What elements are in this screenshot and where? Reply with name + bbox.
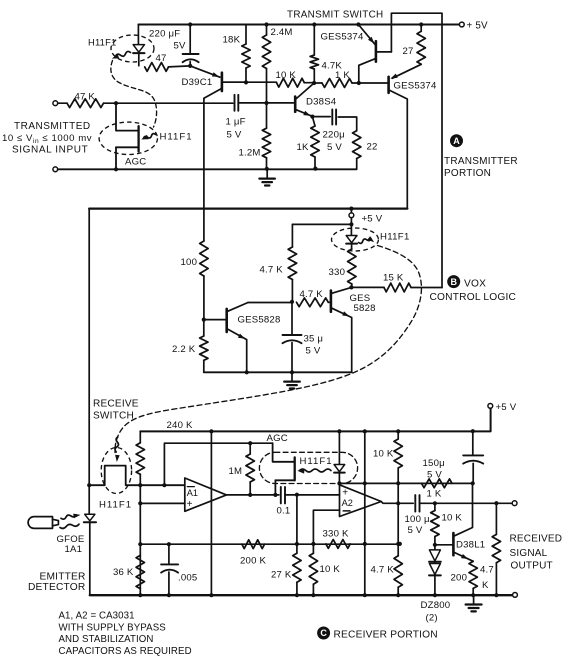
svg-text:H11F1: H11F1 <box>380 232 410 243</box>
svg-text:1 K: 1 K <box>427 488 442 499</box>
badge C receiver portion <box>317 627 330 640</box>
resistor 330 <box>348 249 356 284</box>
svg-text:1M: 1M <box>229 466 243 477</box>
svg-text:15 K: 15 K <box>383 272 404 283</box>
svg-text:OUTPUT: OUTPUT <box>511 560 553 571</box>
svg-text:D38S4: D38S4 <box>306 96 337 107</box>
wire x398 vertical segments <box>397 483 399 503</box>
svg-text:1A1: 1A1 <box>65 544 83 555</box>
wire vertical x364 through A2 <box>364 431 366 595</box>
resistor 100 <box>200 241 208 276</box>
resistor 36 K <box>136 555 144 589</box>
opto H11F1 photoFET AGC (input) <box>116 103 139 130</box>
wire 1K line y483 <box>339 482 472 484</box>
svg-text:10 K: 10 K <box>442 512 463 523</box>
svg-text:RECEIVE: RECEIVE <box>93 398 139 409</box>
svg-text:GES5374: GES5374 <box>394 81 437 92</box>
svg-text:VOX: VOX <box>464 278 486 289</box>
dashed ellipse around VOX LED <box>332 228 379 251</box>
junction 240K bottom / FET line <box>138 483 142 487</box>
wire left rail x89 <box>88 209 90 486</box>
svg-text:A1, A2 = CA3031: A1, A2 = CA3031 <box>59 611 135 622</box>
svg-text:SIGNAL: SIGNAL <box>510 548 548 559</box>
svg-text:10 ≤ Vin ≤ 1000 mv: 10 ≤ Vin ≤ 1000 mv <box>2 133 92 145</box>
svg-text:330: 330 <box>329 267 346 278</box>
transistor GES5374 right (PNP) <box>387 77 390 93</box>
resistor 10 K (A2 minus) <box>309 553 317 584</box>
emitter detector GFOE cylinder <box>28 517 52 529</box>
light arrow into AGC photoFET <box>144 134 156 139</box>
wire transmit switch loop <box>391 13 442 287</box>
resistor 1.2M <box>262 128 270 158</box>
wire 27K node vertical <box>296 495 298 544</box>
resistor 10 K (receiver top) <box>397 431 399 439</box>
resistor 200 <box>469 561 477 588</box>
svg-text:36 K: 36 K <box>113 567 134 578</box>
svg-text:RECEIVED: RECEIVED <box>510 534 563 545</box>
opto H11F1 LED transmit branch <box>137 25 139 45</box>
svg-text:GES5828: GES5828 <box>238 314 281 325</box>
badge B VOX control logic <box>447 275 460 288</box>
junction 330/15K/collector <box>349 285 353 289</box>
svg-text:4.7 K: 4.7 K <box>300 289 324 300</box>
svg-text:H11F1: H11F1 <box>88 36 116 47</box>
wire A1 plus input <box>140 502 185 504</box>
resistor 4.7K pullup <box>313 25 315 56</box>
svg-text:A2: A2 <box>342 498 353 508</box>
svg-text:240 K: 240 K <box>167 420 193 431</box>
svg-text:CONTROL LOGIC: CONTROL LOGIC <box>430 292 517 303</box>
resistor 1K (horizontal) <box>322 79 352 88</box>
svg-text:AGC: AGC <box>125 157 146 168</box>
svg-text:WITH SUPPLY BYPASS: WITH SUPPLY BYPASS <box>59 623 167 634</box>
svg-text:CAPACITORS AS REQUIRED: CAPACITORS AS REQUIRED <box>59 646 192 657</box>
wire VOX ground rail <box>204 371 352 373</box>
svg-text:330 K: 330 K <box>323 528 349 539</box>
terminal +5V VOX <box>350 209 352 213</box>
svg-text:2.2 K: 2.2 K <box>172 344 196 355</box>
junction input/photoFET top <box>114 101 118 105</box>
svg-text:+5 V: +5 V <box>496 402 517 413</box>
dashed link curve LED to AGC photoFET <box>111 61 157 128</box>
light arrow at VOX LED <box>359 239 372 244</box>
svg-text:SWITCH: SWITCH <box>93 410 134 421</box>
svg-text:220 μF: 220 μF <box>149 28 180 39</box>
svg-text:B: B <box>450 277 457 287</box>
svg-text:100: 100 <box>181 257 198 268</box>
resistor 22 <box>353 131 361 159</box>
svg-text:200 K: 200 K <box>240 555 266 566</box>
terminal received signal output bottom <box>513 593 518 598</box>
junction cap/2.4M/1.2M node <box>264 101 268 105</box>
resistor 330 K <box>326 540 350 549</box>
wire vertical x211 through A1 <box>210 431 212 595</box>
dashed ellipse around transmit LED <box>111 35 154 62</box>
resistor 4.7 K (output load) <box>495 503 497 534</box>
svg-text:K: K <box>482 580 489 591</box>
light arrows from GFOE <box>61 515 76 519</box>
svg-text:1 K: 1 K <box>335 70 350 81</box>
ground (receiver) <box>473 595 475 604</box>
resistor 15 K <box>351 286 384 288</box>
svg-text:27 K: 27 K <box>271 570 292 581</box>
wire A1 output y495 <box>226 494 279 496</box>
wire transmitter ground rail y169 <box>53 167 58 172</box>
svg-text:AGC: AGC <box>267 433 288 444</box>
svg-text:+: + <box>187 499 193 510</box>
svg-text:5828: 5828 <box>354 303 376 314</box>
wire receiver top line y431 <box>140 408 490 431</box>
svg-text:1 μF: 1 μF <box>226 117 246 128</box>
transistor D38L1 (NPN) <box>452 533 455 555</box>
svg-text:18K: 18K <box>223 35 241 46</box>
resistor 4.7 K (horizontal VOX) <box>297 298 329 307</box>
wire minus feedback A2 <box>313 510 339 544</box>
svg-text:4.7 K: 4.7 K <box>371 564 395 575</box>
svg-text:PORTION: PORTION <box>444 168 491 179</box>
svg-text:+: + <box>342 487 348 498</box>
junction dots on +5V rail <box>188 22 423 26</box>
svg-text:RECEIVER PORTION: RECEIVER PORTION <box>334 629 438 640</box>
capacitor 150u <box>472 431 474 455</box>
junction D38S4 emitter node <box>310 115 314 119</box>
resistor 1 K receiver <box>422 479 453 488</box>
junction D38L1 base node <box>433 543 437 547</box>
svg-text:5 V: 5 V <box>427 469 442 480</box>
dashed ellipse receive photoFET <box>101 448 131 494</box>
transistor D39C1 (PNP) <box>221 73 224 91</box>
resistor 27 <box>420 25 422 32</box>
resistor 4.7 K (VOX vertical) <box>291 224 293 247</box>
resistor 27 K <box>293 553 301 582</box>
op-amp A2 <box>340 485 382 517</box>
resistor 10 K (output) <box>434 503 436 510</box>
svg-text:TRANSMIT SWITCH: TRANSMIT SWITCH <box>287 10 383 21</box>
ground (VOX) <box>291 372 293 381</box>
resistor 18K <box>245 25 247 45</box>
capacitor .005 <box>168 544 170 564</box>
transistor GES5374 upper (PNP) <box>375 41 378 61</box>
svg-text:H11F1: H11F1 <box>300 456 333 467</box>
resistor 240 K <box>139 431 141 442</box>
svg-text:1K: 1K <box>297 142 310 153</box>
resistor 4.7K (A2 load) <box>394 556 402 588</box>
junction 220uF/47/emitter <box>188 64 192 68</box>
svg-text:DETECTOR: DETECTOR <box>28 582 85 593</box>
svg-text:(2): (2) <box>426 613 438 624</box>
capacitor 35u <box>291 302 293 335</box>
svg-text:DZ800: DZ800 <box>421 600 451 611</box>
dashed ellipse around AGC photoFET <box>99 122 157 154</box>
svg-text:0.1: 0.1 <box>277 505 291 516</box>
svg-text:5 V: 5 V <box>227 129 242 140</box>
opto H11F1 LED VOX <box>350 224 352 235</box>
wire receiver ground rail y595 <box>90 594 513 596</box>
wire VOX +5 line y208.6 <box>89 207 407 209</box>
zener diodes DZ800 (2) <box>434 545 436 550</box>
badge A transmitter portion <box>450 134 463 147</box>
capacitor 220uF <box>189 25 191 54</box>
transistor GES5828 left (NPN) <box>225 309 228 332</box>
capacitor 220u with 22 resistor <box>312 116 330 118</box>
resistor 1M <box>249 443 251 454</box>
terminal received signal output top <box>512 501 517 506</box>
svg-text:47 K: 47 K <box>75 91 96 102</box>
wire VOX upper link y224 <box>292 223 351 225</box>
capacitor 0.1 <box>280 487 282 504</box>
photodiode GFOE input <box>88 485 90 514</box>
svg-text:27: 27 <box>403 46 414 57</box>
svg-text:EMITTER: EMITTER <box>40 572 86 583</box>
svg-text:22: 22 <box>367 142 378 153</box>
light arrow at transmit LED <box>116 51 131 56</box>
svg-text:150μ: 150μ <box>423 458 445 469</box>
svg-text:4.7: 4.7 <box>480 565 494 576</box>
op-amp A1 <box>185 478 227 511</box>
wire collector to 4.7K node <box>248 302 292 304</box>
svg-text:+ 5V: + 5V <box>467 20 488 31</box>
svg-text:1.2M: 1.2M <box>239 148 261 159</box>
capacitor 1uF <box>234 95 236 111</box>
resistor 200 K <box>242 540 265 549</box>
svg-text:35 μ: 35 μ <box>304 334 324 345</box>
wire 544 line <box>140 543 400 545</box>
svg-text:2.4M: 2.4M <box>271 27 293 38</box>
wire +5V top rail <box>138 24 459 26</box>
wire A2 output line y503 <box>381 502 413 504</box>
transistor D38S4 (NPN) <box>294 97 297 112</box>
transistor GES5828 right (NPN) <box>330 291 333 312</box>
svg-text:GES5374: GES5374 <box>321 32 364 43</box>
svg-text:.005: .005 <box>178 572 197 583</box>
resistor 47 <box>145 63 169 72</box>
svg-text:A: A <box>453 136 460 146</box>
ground (transmitter rail) <box>266 169 268 178</box>
svg-text:5V: 5V <box>174 41 187 52</box>
svg-text:TRANSMITTER: TRANSMITTER <box>444 156 518 167</box>
capacitor 100u <box>414 495 416 512</box>
resistor 2.4M <box>266 25 268 36</box>
svg-text:AND STABILIZATION: AND STABILIZATION <box>59 634 154 645</box>
svg-text:4.7 K: 4.7 K <box>260 264 284 275</box>
resistor 47 K <box>67 99 104 108</box>
svg-text:D39C1: D39C1 <box>182 77 213 88</box>
svg-text:200: 200 <box>451 573 468 584</box>
svg-text:220μ: 220μ <box>323 130 345 141</box>
opto H11F1 LED AGC receiver <box>338 431 340 464</box>
svg-text:C: C <box>320 628 327 638</box>
svg-text:5 V: 5 V <box>408 525 423 536</box>
terminal +5V receiver <box>488 404 493 409</box>
svg-text:47: 47 <box>156 53 167 64</box>
svg-text:10 K: 10 K <box>320 564 341 575</box>
svg-text:100 μ: 100 μ <box>405 514 430 525</box>
svg-text:D38L1: D38L1 <box>456 540 485 551</box>
dashed capsule AGC receiver <box>259 452 357 483</box>
junction VOX +5 stub <box>349 207 353 211</box>
svg-text:TRANSMITTED: TRANSMITTED <box>14 121 91 132</box>
dashed curve VOX LED to receive switch <box>115 246 422 453</box>
wire input signal line y103 <box>53 101 58 106</box>
svg-text:5 V: 5 V <box>327 142 342 153</box>
opto H11F1 photoFET receive switch <box>87 483 91 487</box>
junction base-line dots <box>244 80 248 84</box>
svg-text:5 V: 5 V <box>306 345 321 356</box>
svg-text:A1: A1 <box>187 488 198 498</box>
svg-text:SIGNAL INPUT: SIGNAL INPUT <box>12 145 88 156</box>
svg-text:10 K: 10 K <box>276 70 297 81</box>
light arrow into receive photoFET <box>115 437 119 452</box>
light arrow into AGC-receiver photoFET <box>300 469 332 472</box>
terminal +5V (transmitter) <box>459 22 464 27</box>
wire base line y83 with resistors <box>224 81 277 83</box>
resistor 1K (vertical) <box>312 117 315 126</box>
svg-text:H11F1: H11F1 <box>160 132 193 143</box>
svg-text:10 K: 10 K <box>373 448 394 459</box>
svg-text:+5 V: +5 V <box>362 213 383 224</box>
resistor 10K (transmitter) <box>277 78 305 87</box>
svg-text:H11F1: H11F1 <box>99 499 132 510</box>
wire AGC line y443 <box>164 443 272 485</box>
wire 240K vertical to plus input and 36K <box>139 485 141 595</box>
wire D39C1 collector vertical x204 <box>203 98 205 241</box>
junction GES5828 base node <box>202 318 206 322</box>
resistor 2.2 K <box>200 336 208 360</box>
opto H11F1 photoFET AGC receiver <box>273 443 295 462</box>
